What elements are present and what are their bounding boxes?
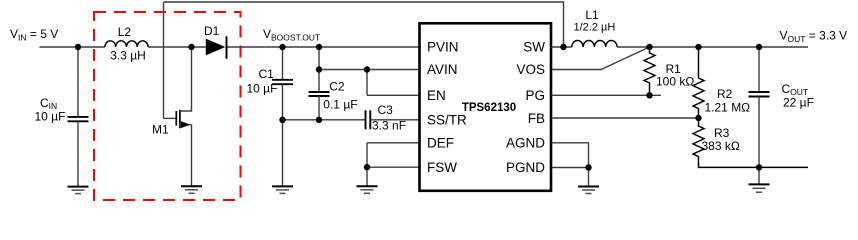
svg-text:1/2.2 µH: 1/2.2 µH: [574, 22, 616, 34]
svg-text:AGND: AGND: [506, 136, 545, 151]
svg-text:VIN = 5 V: VIN = 5 V: [10, 27, 58, 43]
svg-text:SS/TR: SS/TR: [427, 112, 467, 127]
svg-text:10 µF: 10 µF: [247, 81, 278, 95]
svg-text:DEF: DEF: [427, 136, 454, 151]
svg-text:PVIN: PVIN: [427, 40, 459, 55]
svg-text:100 kΩ: 100 kΩ: [656, 75, 694, 89]
svg-text:PGND: PGND: [506, 160, 545, 175]
svg-text:EN: EN: [427, 88, 446, 103]
svg-text:L2: L2: [118, 25, 132, 39]
svg-text:C2: C2: [329, 80, 345, 94]
svg-text:D1: D1: [204, 24, 220, 38]
svg-text:R2: R2: [717, 87, 733, 101]
svg-text:1.21 MΩ: 1.21 MΩ: [705, 100, 751, 114]
svg-text:3.3 µH: 3.3 µH: [110, 49, 146, 63]
svg-text:0.1 µF: 0.1 µF: [323, 98, 357, 112]
svg-text:SW: SW: [523, 40, 545, 55]
svg-text:C1: C1: [259, 67, 275, 81]
svg-text:22 µF: 22 µF: [783, 96, 814, 110]
svg-text:M1: M1: [152, 122, 169, 136]
svg-text:FSW: FSW: [427, 160, 457, 175]
svg-text:AVIN: AVIN: [427, 62, 458, 77]
svg-text:PG: PG: [525, 88, 545, 103]
svg-text:TPS62130: TPS62130: [462, 102, 516, 114]
svg-text:10 µF: 10 µF: [35, 109, 66, 123]
svg-text:L1: L1: [585, 8, 599, 22]
svg-text:383 kΩ: 383 kΩ: [702, 139, 740, 153]
svg-text:C3: C3: [378, 103, 394, 117]
svg-text:VOS: VOS: [516, 62, 545, 77]
svg-text:FB: FB: [528, 111, 545, 126]
svg-text:3.3 nF: 3.3 nF: [372, 118, 406, 132]
